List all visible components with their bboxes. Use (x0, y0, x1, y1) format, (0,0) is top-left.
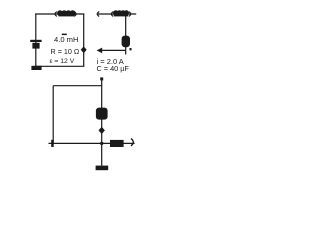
current arrow on loop1 right edge (81, 46, 87, 53)
resistor box on bottom line (110, 140, 124, 147)
wire loop L1 top edge (35, 13, 84, 15)
terminal tick left end of bottom line (51, 140, 54, 147)
inductor L2 (111, 10, 130, 16)
battery B1 short plate (32, 43, 39, 49)
wire loop L1 right edge (83, 14, 85, 66)
battery B1 long plate (30, 40, 41, 42)
ground bar at bottom of circuit3 vertical (96, 166, 109, 171)
terminal curve circuit2 left (97, 12, 99, 17)
svg-text:R = 10 Ω: R = 10 Ω (51, 47, 80, 56)
wire circuit2 arrow line (101, 49, 126, 51)
terminal curve right end of bottom line (131, 139, 133, 146)
wire circuit3 left edge (52, 86, 54, 144)
component knot on circuit3 vertical (96, 108, 108, 120)
svg-text:4.0 mH: 4.0 mH (54, 35, 78, 44)
current arrow on circuit3 vertical (99, 127, 105, 134)
junction dot circuit3 bottom line (100, 142, 103, 145)
arrowhead left on circuit2 arrow line (97, 48, 103, 54)
terminal bar bottom-left of loop1 (31, 66, 41, 70)
wire circuit2 vertical (125, 14, 127, 55)
cap on circuit3 vertical top (100, 77, 103, 80)
svg-text:C = 40 µF: C = 40 µF (97, 64, 130, 73)
inductor L1 (55, 10, 76, 16)
component knot on circuit2 vertical (122, 36, 130, 48)
wire loop L1 left edge (35, 14, 37, 66)
wire circuit3 top edge (53, 85, 101, 87)
wire circuit3 bottom line (49, 142, 135, 144)
wire circuit2 top (97, 13, 136, 15)
svg-text:ε = 12 V: ε = 12 V (50, 58, 75, 65)
wire circuit3 vertical (101, 78, 103, 166)
junction dot circuit2 (130, 48, 132, 50)
wire loop L1 bottom edge (35, 65, 84, 67)
superscript mark above loop1 label (62, 34, 67, 36)
